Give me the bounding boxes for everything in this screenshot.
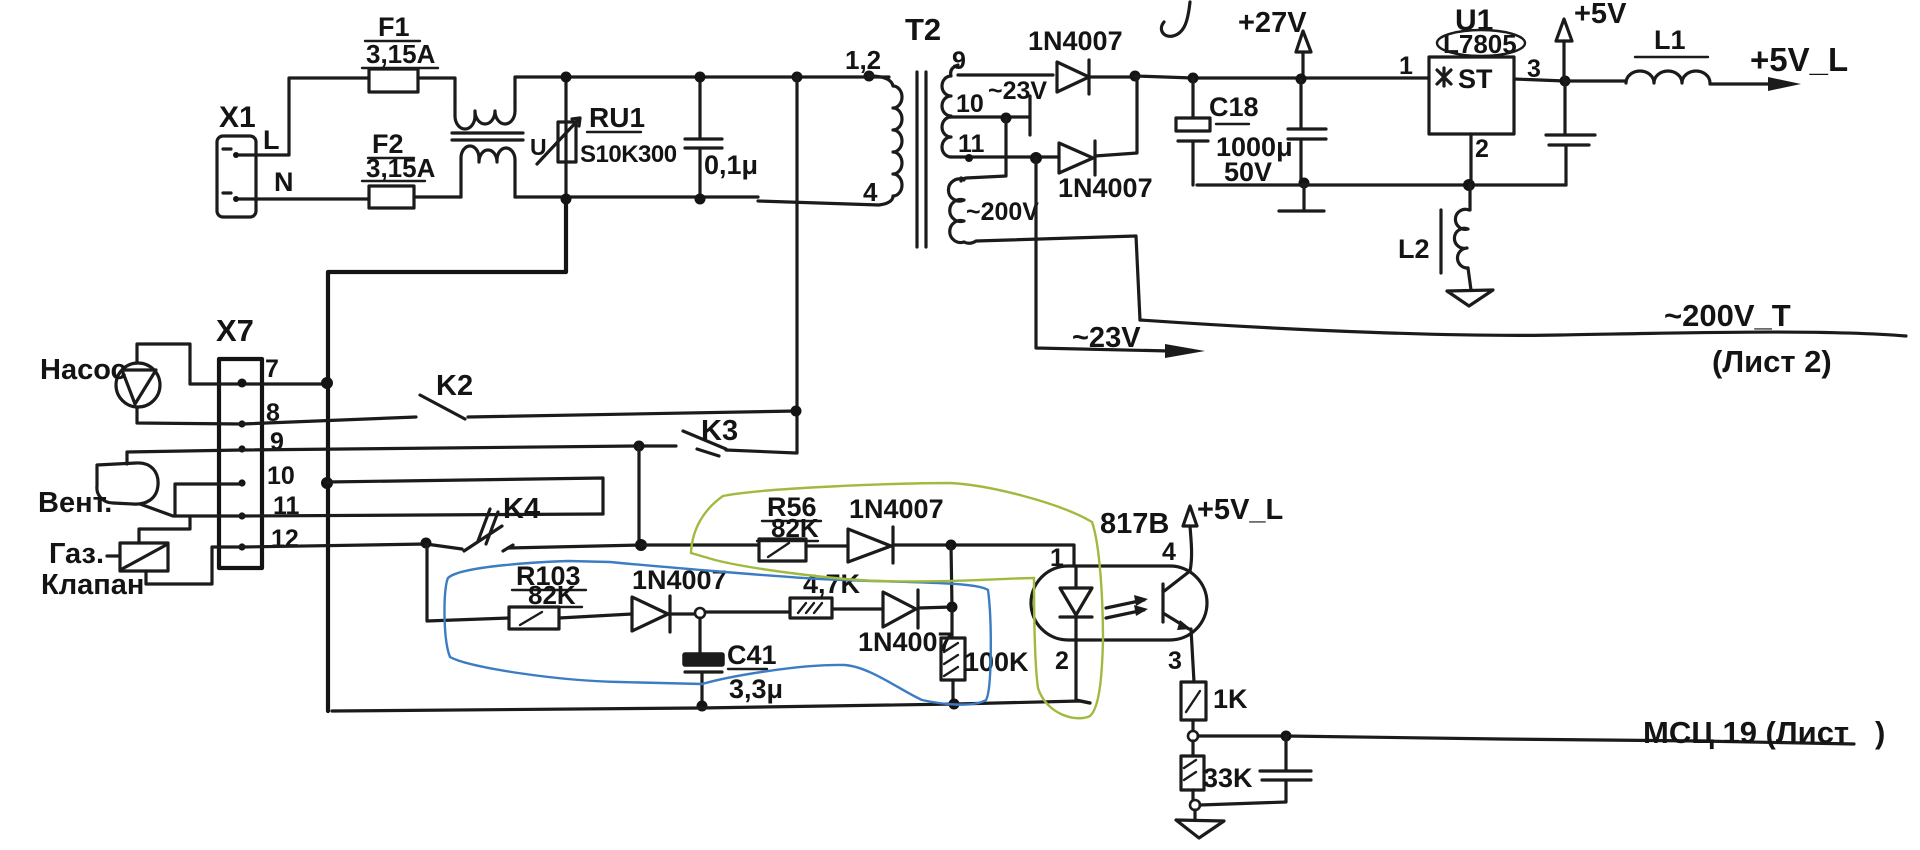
svg-text:12: 12 xyxy=(271,525,299,553)
svg-text:X1: X1 xyxy=(219,101,256,134)
capacitor at MCU node xyxy=(1200,736,1311,805)
svg-text:50V: 50V xyxy=(1224,157,1272,187)
connector X1 xyxy=(217,101,294,217)
T2 secondary winding ~200V xyxy=(948,178,1039,243)
wire pin10 to 200V winding xyxy=(961,118,1006,181)
svg-text:S10K300: S10K300 xyxy=(580,141,677,168)
svg-text:1N4007: 1N4007 xyxy=(1058,173,1153,203)
svg-text:L: L xyxy=(263,125,280,155)
ground stub below rail xyxy=(1279,184,1324,211)
svg-text:U: U xyxy=(530,134,547,160)
diode 1N4007 row1 xyxy=(806,494,944,563)
svg-text:RU1: RU1 xyxy=(589,102,645,133)
wire mid riser xyxy=(951,545,952,607)
wire choke to top rail xyxy=(515,77,889,102)
svg-text:Клапан: Клапан xyxy=(41,569,144,601)
node top rail to K riser xyxy=(792,72,803,83)
svg-text:Вент.: Вент. xyxy=(38,487,112,519)
svg-text:11: 11 xyxy=(958,130,985,158)
wire row1 to opto pin1 xyxy=(893,545,1074,566)
wire riser to relay contacts xyxy=(795,77,798,453)
wire ~23V output xyxy=(1036,158,1170,351)
svg-text:3: 3 xyxy=(1168,647,1182,675)
wire pin11 xyxy=(951,155,1059,158)
blue highlight loop xyxy=(444,561,990,705)
svg-text:Насос: Насос xyxy=(40,354,127,386)
svg-text:7: 7 xyxy=(265,355,279,383)
svg-text:3,15A: 3,15A xyxy=(366,39,436,69)
opto transistor xyxy=(1163,571,1191,630)
fuse F2 3,15A xyxy=(362,129,436,208)
fuse F1 3,15A xyxy=(362,12,438,92)
wire ~200V_T long line xyxy=(1140,320,1906,336)
svg-text:F1: F1 xyxy=(378,12,410,42)
relay contact K2 xyxy=(420,370,473,419)
svg-text:10: 10 xyxy=(956,90,984,118)
resistor R56 82K xyxy=(641,492,821,561)
capacitor C41 3,3u xyxy=(683,618,783,706)
varistor RU1 S10K300 xyxy=(530,102,677,168)
svg-text:817B: 817B xyxy=(1100,508,1169,540)
transformer core xyxy=(917,72,926,247)
wire X1 N to F2 xyxy=(239,197,369,200)
svg-text:K2: K2 xyxy=(436,370,473,402)
ground at 33K xyxy=(1193,810,1196,819)
wire pump to pin7 xyxy=(137,344,327,384)
inductor L1 xyxy=(1565,25,1710,83)
wire U1 pin3 xyxy=(1514,79,1565,81)
diode 1N4007 row2 right xyxy=(832,590,953,657)
wire bottom rail xyxy=(332,701,1090,711)
arrow ~23V xyxy=(1165,344,1205,358)
wire pin9 riser to row1 xyxy=(637,446,640,545)
svg-text:33K: 33K xyxy=(1203,763,1253,793)
wire F1 to choke xyxy=(418,78,455,102)
wire through RU1 xyxy=(564,77,567,199)
diode 1N4007 upper xyxy=(1028,26,1123,94)
wire L2 to ground xyxy=(1468,268,1471,290)
svg-text:0,1μ: 0,1μ xyxy=(704,150,758,180)
resistor 33K xyxy=(1181,741,1253,793)
gas valve symbol xyxy=(41,538,168,601)
svg-text:1: 1 xyxy=(1399,52,1413,80)
svg-text:N: N xyxy=(274,167,294,197)
wire F2 to choke bottom xyxy=(414,195,461,198)
svg-text:(Лист 2): (Лист 2) xyxy=(1712,344,1832,379)
T2 secondary winding 10-11 xyxy=(942,117,985,158)
svg-text:9: 9 xyxy=(952,47,966,75)
wire pin10 loop to K4 xyxy=(327,478,603,514)
svg-text:ST: ST xyxy=(1458,64,1493,94)
capacitor C18 1000u 50V xyxy=(1176,73,1293,188)
node pin7 on N rail xyxy=(321,377,333,389)
svg-text:+5V_L: +5V_L xyxy=(1750,41,1848,78)
svg-text:~23V: ~23V xyxy=(1072,322,1141,354)
wire N drop to X7 rail xyxy=(328,199,566,711)
svg-text:3,15A: 3,15A xyxy=(366,153,436,183)
svg-text:~23V: ~23V xyxy=(988,77,1047,105)
wire top rail to U1 xyxy=(1135,76,1429,78)
svg-text:1K: 1K xyxy=(1213,684,1248,714)
wire gnd rail xyxy=(1197,183,1566,186)
wire valve top to pin11 xyxy=(139,517,190,543)
wire diode1 to +27 node xyxy=(1089,75,1135,78)
wire MCU19 output xyxy=(1198,736,1854,744)
+5V supply arrow xyxy=(1556,0,1627,81)
svg-text:1: 1 xyxy=(1050,544,1064,572)
regulator U1 L7805 xyxy=(1399,4,1541,163)
relay contact K3 xyxy=(683,415,738,456)
wire pump bottom to pin8 xyxy=(137,407,242,424)
svg-text:1,2: 1,2 xyxy=(845,45,881,75)
svg-text:4: 4 xyxy=(1162,538,1176,566)
wire pin9 to K3 xyxy=(242,446,676,450)
optocoupler 817B xyxy=(1031,508,1207,640)
inductor L2 xyxy=(1398,185,1470,273)
wire U1 pin2 to gnd rail xyxy=(1469,134,1472,185)
wire pin9 to diode xyxy=(958,73,1053,76)
svg-text:2: 2 xyxy=(1055,647,1069,675)
wire valve bottom to pin12 xyxy=(146,547,242,584)
wire pin10 jog xyxy=(175,484,242,516)
svg-text:X7: X7 xyxy=(216,313,254,348)
svg-text:~200V: ~200V xyxy=(966,198,1039,226)
wire pin11 line xyxy=(242,514,603,516)
opto LED xyxy=(1060,568,1092,640)
fan Vent symbol xyxy=(38,463,158,519)
+27V supply arrow xyxy=(1238,7,1311,79)
diode 1N4007 row2 left xyxy=(559,565,727,632)
svg-text:10: 10 xyxy=(267,462,295,490)
svg-text:9: 9 xyxy=(270,428,284,456)
wire pin8 to K2 xyxy=(242,417,416,424)
svg-text:МСЦ 19 (Лист ): МСЦ 19 (Лист ) xyxy=(1643,715,1885,750)
wire pin10 node xyxy=(951,96,1030,135)
resistor 4,7K xyxy=(706,569,861,618)
node C41 tap xyxy=(670,612,694,615)
common-mode choke bottom winding xyxy=(461,146,515,197)
wire fan to pin9 xyxy=(127,450,242,464)
wire choke to bottom rail node xyxy=(515,195,758,198)
svg-text:Газ.: Газ. xyxy=(49,538,104,570)
svg-text:1N4007: 1N4007 xyxy=(632,565,727,595)
svg-text:1N4007: 1N4007 xyxy=(1028,26,1123,56)
resistor 100K xyxy=(941,607,1029,704)
svg-text:4: 4 xyxy=(863,177,878,207)
diode 1N4007 lower xyxy=(1058,141,1153,203)
capacitor 0,1u xyxy=(685,77,758,199)
wire K2 to riser xyxy=(468,411,796,417)
wire L from X1 to F1 xyxy=(239,78,369,155)
svg-text:82K: 82K xyxy=(528,580,576,610)
T2 secondary winding 9-10 xyxy=(942,47,984,118)
transformer T2 primary xyxy=(758,12,941,207)
wire diode2 up to +27 node xyxy=(1095,76,1137,156)
pump Hacoc symbol xyxy=(40,354,160,407)
svg-text:L2: L2 xyxy=(1398,234,1430,264)
wire opto pin4 to +5V_L xyxy=(1190,526,1192,571)
svg-text:C18: C18 xyxy=(1209,92,1259,122)
svg-text:100K: 100K xyxy=(964,647,1029,677)
svg-text:L1: L1 xyxy=(1654,25,1686,55)
stray pen glyph top xyxy=(1161,2,1190,36)
svg-text:2: 2 xyxy=(1475,135,1489,163)
connector X7 xyxy=(216,313,300,568)
capacitor at +27V xyxy=(1288,79,1326,183)
svg-text:+27V: +27V xyxy=(1238,7,1307,39)
svg-text:3,3μ: 3,3μ xyxy=(729,674,783,704)
svg-text:82K: 82K xyxy=(771,513,819,543)
opto light arrows xyxy=(1106,600,1144,618)
ground xyxy=(1447,290,1493,306)
wire pin12 to K4 xyxy=(242,544,462,549)
svg-text:~200V_T: ~200V_T xyxy=(1664,298,1791,333)
relay contact K4 xyxy=(464,493,540,551)
wire 200V winding to sheet2 line xyxy=(964,236,1140,320)
node pin10 on N rail xyxy=(321,477,333,489)
wire K4 to R56 row xyxy=(508,545,641,548)
svg-text:4,7K: 4,7K xyxy=(803,569,861,599)
svg-text:1N4007: 1N4007 xyxy=(858,627,953,657)
wire +5V_L output xyxy=(1710,82,1788,85)
svg-text:C41: C41 xyxy=(727,640,777,670)
svg-text:K4: K4 xyxy=(503,493,540,525)
svg-text:+5V_L: +5V_L xyxy=(1197,494,1283,526)
wire opto pin2 to rail xyxy=(1076,640,1090,703)
svg-text:1N4007: 1N4007 xyxy=(849,494,944,524)
svg-text:K3: K3 xyxy=(701,415,738,447)
wire opto pin3 to 1K xyxy=(1191,629,1194,682)
green highlight loop xyxy=(691,483,1103,718)
svg-text:+5V: +5V xyxy=(1574,0,1627,30)
node cap bottom xyxy=(695,194,706,205)
wire K3 to riser xyxy=(726,450,796,453)
wire fan bottom to pin11 xyxy=(140,504,242,516)
choke core xyxy=(452,133,523,140)
common-mode choke top winding xyxy=(455,102,515,129)
capacitor at U1 output xyxy=(1546,81,1595,185)
resistor 1K xyxy=(1181,682,1248,720)
node RU1 top xyxy=(561,72,572,83)
svg-text:T2: T2 xyxy=(905,12,941,47)
node cap top xyxy=(695,72,706,83)
resistor R103 82K xyxy=(509,561,586,629)
wire pin12 drop to R103 xyxy=(427,544,509,621)
node RU1 bottom xyxy=(561,194,572,205)
